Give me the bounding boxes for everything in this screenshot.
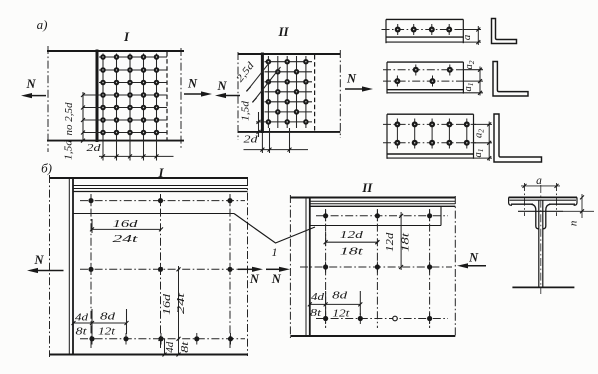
svg-text:б): б): [41, 161, 52, 176]
svg-text:n: n: [567, 220, 579, 226]
svg-text:1,5d: 1,5d: [64, 139, 75, 160]
svg-text:а: а: [536, 175, 542, 187]
svg-text:N: N: [187, 77, 198, 91]
svg-text:12t: 12t: [332, 309, 350, 320]
svg-text:8d: 8d: [332, 291, 348, 302]
svg-text:II: II: [277, 24, 289, 39]
svg-text:12d: 12d: [385, 231, 396, 251]
svg-text:N: N: [216, 79, 227, 93]
svg-text:4d: 4d: [165, 341, 176, 353]
svg-text:а): а): [37, 17, 48, 32]
svg-text:12t: 12t: [98, 327, 116, 338]
svg-text:N: N: [33, 253, 44, 267]
svg-text:N: N: [249, 272, 260, 286]
svg-text:24t: 24t: [176, 291, 187, 314]
svg-text:24t: 24t: [113, 233, 140, 245]
svg-text:4d: 4d: [75, 312, 89, 323]
svg-text:8t: 8t: [76, 327, 88, 338]
svg-text:1,5d: 1,5d: [240, 100, 251, 121]
svg-text:2d: 2d: [87, 142, 102, 154]
svg-text:8t: 8t: [180, 341, 191, 352]
svg-text:II: II: [361, 180, 373, 195]
svg-text:8d: 8d: [100, 312, 116, 323]
svg-text:8t: 8t: [310, 308, 322, 319]
svg-text:18t: 18t: [340, 246, 365, 258]
svg-text:18t: 18t: [401, 233, 412, 252]
svg-text:a: a: [461, 34, 473, 40]
svg-text:N: N: [271, 272, 282, 286]
svg-text:I: I: [123, 29, 130, 44]
svg-text:16d: 16d: [162, 293, 173, 315]
svg-text:N: N: [25, 77, 36, 91]
svg-text:2d: 2d: [244, 134, 259, 146]
svg-text:4d: 4d: [311, 292, 325, 303]
svg-text:по 2,5d: по 2,5d: [64, 102, 75, 136]
svg-text:N: N: [346, 72, 357, 86]
svg-text:N: N: [468, 251, 479, 265]
svg-text:16d: 16d: [113, 218, 139, 230]
svg-text:12d: 12d: [340, 229, 364, 241]
svg-text:1: 1: [272, 245, 278, 259]
